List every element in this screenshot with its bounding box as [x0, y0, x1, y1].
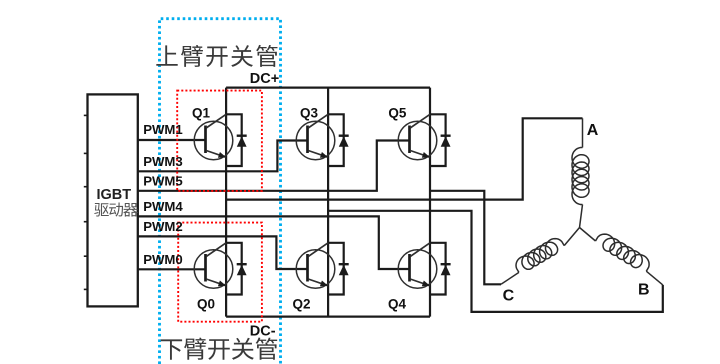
- svg-text:PWM5: PWM5: [143, 173, 183, 188]
- svg-text:Q2: Q2: [293, 297, 311, 312]
- svg-text:Q1: Q1: [192, 105, 211, 120]
- svg-text:PWM1: PWM1: [143, 122, 183, 137]
- svg-text:Q3: Q3: [300, 105, 319, 120]
- svg-text:DC+: DC+: [250, 71, 279, 87]
- svg-text:Q5: Q5: [388, 105, 407, 120]
- svg-text:PWM0: PWM0: [143, 252, 183, 267]
- svg-text:A: A: [587, 122, 599, 139]
- svg-text:Q4: Q4: [388, 297, 407, 312]
- svg-text:DC-: DC-: [250, 324, 276, 340]
- svg-text:B: B: [638, 282, 650, 299]
- svg-text:C: C: [503, 288, 515, 305]
- svg-text:IGBT: IGBT: [97, 187, 132, 203]
- svg-text:PWM2: PWM2: [143, 219, 183, 234]
- svg-text:PWM4: PWM4: [143, 199, 183, 214]
- svg-text:Q0: Q0: [197, 297, 215, 312]
- svg-text:PWM3: PWM3: [143, 154, 183, 169]
